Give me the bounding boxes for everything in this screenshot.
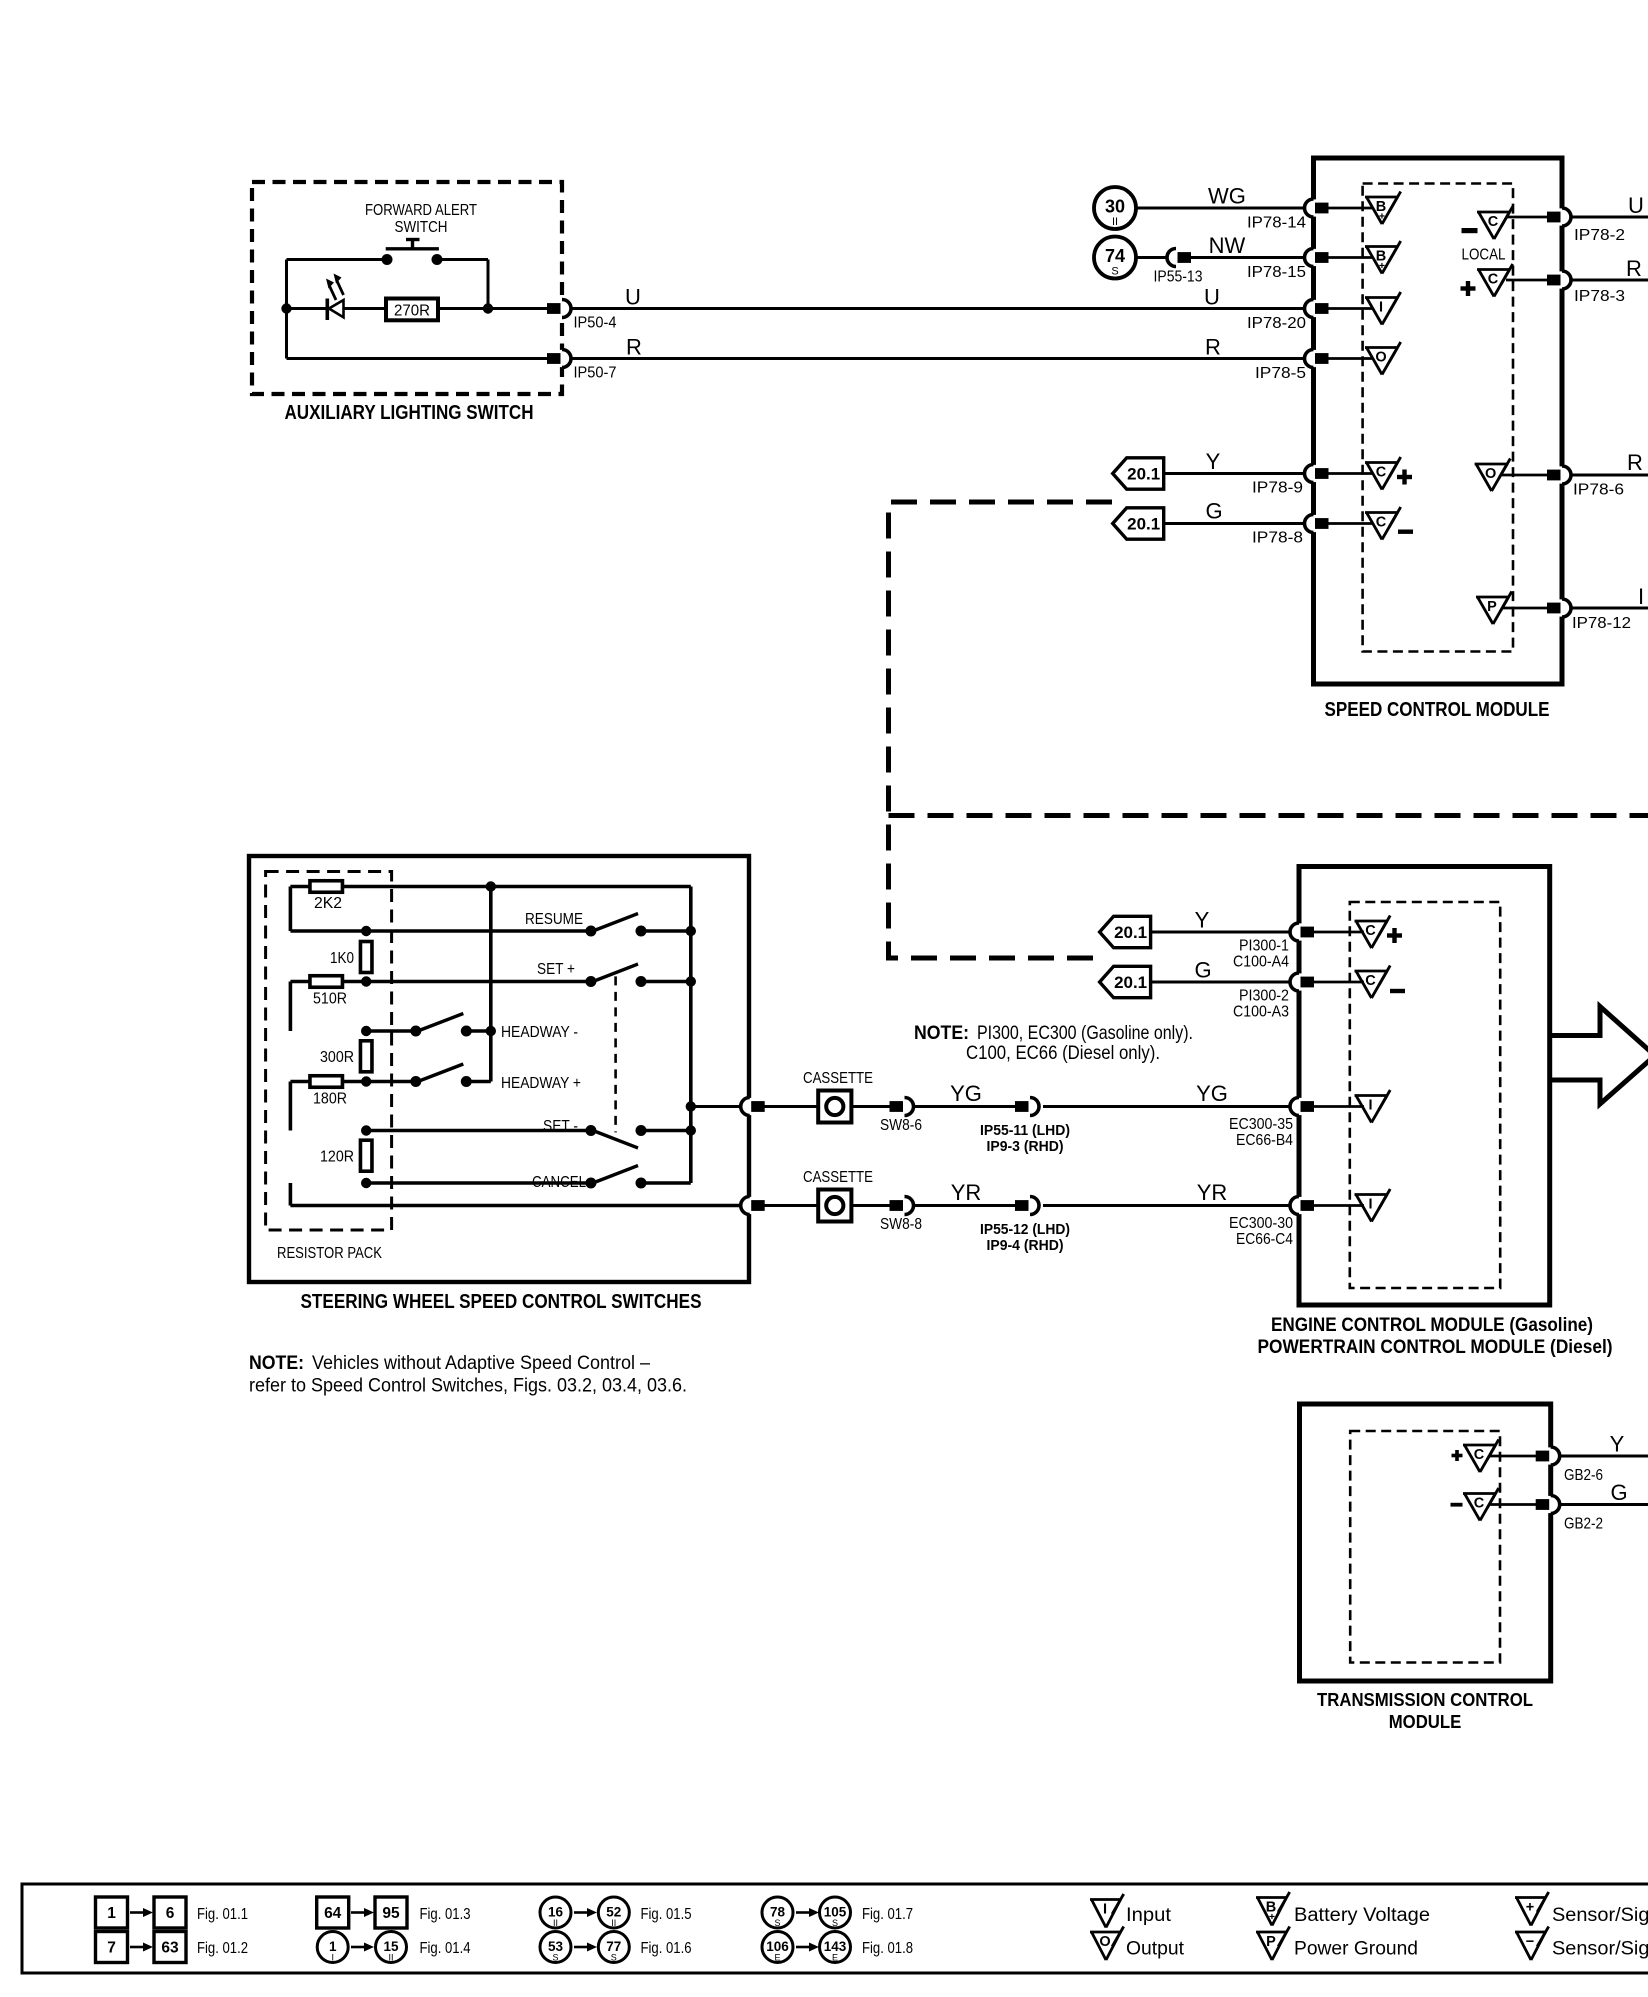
svg-text:YG: YG: [950, 1081, 982, 1106]
svg-text:EC300-35: EC300-35: [1229, 1116, 1293, 1133]
svg-text:IP78-15: IP78-15: [1247, 264, 1306, 281]
svg-text:R: R: [1626, 256, 1642, 281]
svg-text:20.1: 20.1: [1127, 516, 1160, 534]
svg-text:EC66-C4: EC66-C4: [1236, 1231, 1293, 1248]
svg-text:C: C: [1365, 923, 1376, 939]
svg-text:C100-A3: C100-A3: [1233, 1004, 1289, 1021]
svg-text:+: +: [1379, 211, 1385, 223]
svg-text:Fig. 01.5: Fig. 01.5: [641, 1906, 692, 1923]
svg-text:YR: YR: [1197, 1180, 1228, 1205]
svg-text:POWERTRAIN CONTROL MODULE (Die: POWERTRAIN CONTROL MODULE (Diesel): [1258, 1337, 1613, 1358]
svg-text:7: 7: [107, 1940, 116, 1957]
svg-text:95: 95: [382, 1905, 400, 1922]
svg-text:YG: YG: [1196, 1081, 1228, 1106]
svg-text:6: 6: [166, 1905, 175, 1922]
svg-text:+: +: [1269, 1911, 1275, 1923]
svg-text:II: II: [553, 1918, 558, 1928]
svg-text:ENGINE CONTROL MODULE (Gasolin: ENGINE CONTROL MODULE (Gasoline): [1271, 1315, 1593, 1336]
svg-text:C: C: [1376, 515, 1387, 531]
svg-text:R: R: [1627, 450, 1643, 475]
svg-text:G: G: [1205, 499, 1222, 524]
svg-text:Fig. 01.2: Fig. 01.2: [197, 1940, 248, 1957]
svg-text:PI300-1: PI300-1: [1239, 938, 1289, 955]
svg-text:IP78-8: IP78-8: [1252, 530, 1303, 547]
svg-text:O: O: [1375, 350, 1386, 366]
svg-text:P: P: [1266, 1934, 1276, 1950]
svg-text:MODULE: MODULE: [1389, 1711, 1462, 1732]
svg-text:AUXILIARY LIGHTING SWITCH: AUXILIARY LIGHTING SWITCH: [285, 402, 534, 424]
svg-text:Sensor/Signal: Sensor/Signal: [1552, 1905, 1648, 1926]
svg-text:PI300, EC300 (Gasoline only).: PI300, EC300 (Gasoline only).: [977, 1023, 1193, 1044]
svg-text:I: I: [331, 1953, 334, 1963]
svg-text:I: I: [1638, 584, 1644, 609]
svg-text:IP50-7: IP50-7: [574, 365, 617, 382]
svg-text:STEERING WHEEL SPEED CONTROL S: STEERING WHEEL SPEED CONTROL SWITCHES: [301, 1291, 702, 1313]
svg-text:FORWARD ALERT: FORWARD ALERT: [365, 202, 477, 219]
svg-text:U: U: [1628, 193, 1644, 218]
svg-text:LOCAL: LOCAL: [1462, 247, 1506, 264]
svg-text:GB2-6: GB2-6: [1564, 1467, 1603, 1484]
svg-text:O: O: [1099, 1934, 1110, 1950]
svg-text:Fig. 01.8: Fig. 01.8: [862, 1940, 913, 1957]
svg-text:2K2: 2K2: [314, 895, 342, 912]
svg-text:Y: Y: [1206, 449, 1221, 474]
svg-text:63: 63: [161, 1940, 179, 1957]
svg-text:Fig. 01.4: Fig. 01.4: [420, 1940, 471, 1957]
svg-text:Fig. 01.1: Fig. 01.1: [197, 1906, 248, 1923]
svg-text:IP78-20: IP78-20: [1247, 315, 1306, 332]
svg-text:R: R: [626, 335, 642, 360]
svg-text:Battery Voltage: Battery Voltage: [1294, 1905, 1430, 1926]
svg-text:S: S: [774, 1918, 780, 1928]
svg-text:C: C: [1474, 1496, 1485, 1512]
svg-text:refer to Speed Control Switche: refer to Speed Control Switches, Figs. 0…: [249, 1376, 687, 1397]
svg-text:II: II: [388, 1953, 393, 1963]
svg-text:SET -: SET -: [543, 1118, 578, 1135]
svg-text:CANCEL: CANCEL: [532, 1174, 586, 1191]
svg-text:S: S: [1111, 266, 1118, 278]
svg-text:NOTE:: NOTE:: [249, 1353, 304, 1374]
svg-text:II: II: [611, 1918, 616, 1928]
svg-text:1K0: 1K0: [330, 950, 354, 967]
svg-text:20.1: 20.1: [1114, 924, 1147, 942]
svg-text:G: G: [1194, 958, 1211, 983]
svg-text:II: II: [1112, 216, 1118, 228]
svg-text:P: P: [1487, 599, 1497, 615]
svg-text:Fig. 01.6: Fig. 01.6: [641, 1940, 692, 1957]
svg-text:Fig. 01.3: Fig. 01.3: [420, 1906, 471, 1923]
svg-text:RESISTOR PACK: RESISTOR PACK: [277, 1245, 383, 1262]
svg-text:WG: WG: [1208, 184, 1246, 209]
svg-text:U: U: [625, 285, 641, 310]
svg-text:IP78-14: IP78-14: [1247, 215, 1306, 232]
svg-text:Input: Input: [1126, 1905, 1172, 1926]
svg-text:Y: Y: [1610, 1432, 1625, 1457]
svg-text:EC66-B4: EC66-B4: [1236, 1132, 1293, 1149]
svg-text:270R: 270R: [394, 303, 430, 320]
svg-text:+: +: [1526, 1900, 1534, 1916]
svg-text:1: 1: [107, 1905, 116, 1922]
svg-text:C: C: [1488, 214, 1499, 230]
svg-text:Y: Y: [1195, 908, 1210, 933]
svg-text:IP9-3 (RHD): IP9-3 (RHD): [987, 1138, 1064, 1155]
svg-text:I: I: [1379, 300, 1383, 316]
svg-text:I: I: [1103, 1902, 1107, 1918]
svg-text:S: S: [611, 1953, 617, 1963]
svg-text:C100-A4: C100-A4: [1233, 954, 1289, 971]
svg-text:−: −: [1526, 1934, 1534, 1950]
svg-text:Output: Output: [1126, 1939, 1185, 1960]
svg-text:RESUME: RESUME: [525, 911, 583, 928]
svg-text:G: G: [1610, 1480, 1627, 1505]
svg-text:IP55-11 (LHD): IP55-11 (LHD): [980, 1122, 1070, 1139]
svg-text:SW8-6: SW8-6: [880, 1117, 922, 1134]
svg-text:510R: 510R: [313, 991, 347, 1008]
svg-text:EC300-30: EC300-30: [1229, 1215, 1293, 1232]
svg-text:O: O: [1485, 466, 1496, 482]
svg-text:IP78-2: IP78-2: [1574, 227, 1625, 244]
svg-text:IP50-4: IP50-4: [574, 315, 617, 332]
svg-text:GB2-2: GB2-2: [1564, 1516, 1603, 1533]
svg-text:E: E: [832, 1953, 838, 1963]
svg-text:I: I: [1368, 1197, 1372, 1213]
svg-text:20.1: 20.1: [1127, 466, 1160, 484]
svg-text:R: R: [1205, 335, 1221, 360]
svg-text:IP78-5: IP78-5: [1255, 365, 1306, 382]
svg-text:E: E: [774, 1953, 780, 1963]
svg-text:IP55-12 (LHD): IP55-12 (LHD): [980, 1221, 1070, 1238]
svg-text:180R: 180R: [313, 1091, 347, 1108]
svg-text:IP78-6: IP78-6: [1573, 482, 1624, 499]
svg-text:IP78-12: IP78-12: [1572, 615, 1631, 632]
svg-text:S: S: [832, 1918, 838, 1928]
svg-text:U: U: [1204, 285, 1220, 310]
svg-text:SW8-8: SW8-8: [880, 1216, 922, 1233]
svg-text:C: C: [1376, 465, 1387, 481]
svg-text:I: I: [1368, 1098, 1372, 1114]
svg-text:C100, EC66 (Diesel only).: C100, EC66 (Diesel only).: [966, 1043, 1160, 1064]
svg-text:IP78-3: IP78-3: [1574, 288, 1625, 305]
svg-text:HEADWAY +: HEADWAY +: [501, 1075, 581, 1092]
svg-text:IP55-13: IP55-13: [1154, 269, 1203, 286]
svg-text:S: S: [552, 1953, 558, 1963]
svg-text:IP78-9: IP78-9: [1252, 480, 1303, 497]
svg-text:+: +: [1379, 260, 1385, 272]
svg-text:64: 64: [324, 1905, 342, 1922]
svg-text:Vehicles without Adaptive Spee: Vehicles without Adaptive Speed Control …: [312, 1353, 650, 1374]
svg-text:Sensor/Signal: Sensor/Signal: [1552, 1939, 1648, 1960]
svg-text:NW: NW: [1209, 233, 1246, 258]
svg-text:SPEED CONTROL MODULE: SPEED CONTROL MODULE: [1325, 699, 1550, 721]
svg-text:NOTE:: NOTE:: [914, 1023, 969, 1044]
svg-text:SET +: SET +: [537, 961, 575, 978]
svg-text:120R: 120R: [320, 1149, 354, 1166]
svg-text:CASSETTE: CASSETTE: [803, 1070, 873, 1087]
svg-text:Power Ground: Power Ground: [1294, 1939, 1418, 1960]
svg-text:IP9-4 (RHD): IP9-4 (RHD): [987, 1237, 1064, 1254]
svg-text:TRANSMISSION CONTROL: TRANSMISSION CONTROL: [1317, 1689, 1533, 1710]
svg-text:20.1: 20.1: [1114, 974, 1147, 992]
svg-text:74: 74: [1105, 246, 1125, 266]
svg-text:YR: YR: [951, 1180, 982, 1205]
svg-text:C: C: [1474, 1447, 1485, 1463]
svg-text:C: C: [1488, 272, 1499, 288]
svg-text:PI300-2: PI300-2: [1239, 988, 1289, 1005]
svg-text:HEADWAY -: HEADWAY -: [501, 1024, 578, 1041]
svg-text:Fig. 01.7: Fig. 01.7: [862, 1906, 913, 1923]
svg-text:CASSETTE: CASSETTE: [803, 1169, 873, 1186]
svg-text:30: 30: [1105, 197, 1125, 217]
svg-text:SWITCH: SWITCH: [395, 219, 448, 236]
svg-text:300R: 300R: [320, 1049, 354, 1066]
svg-text:C: C: [1365, 973, 1376, 989]
